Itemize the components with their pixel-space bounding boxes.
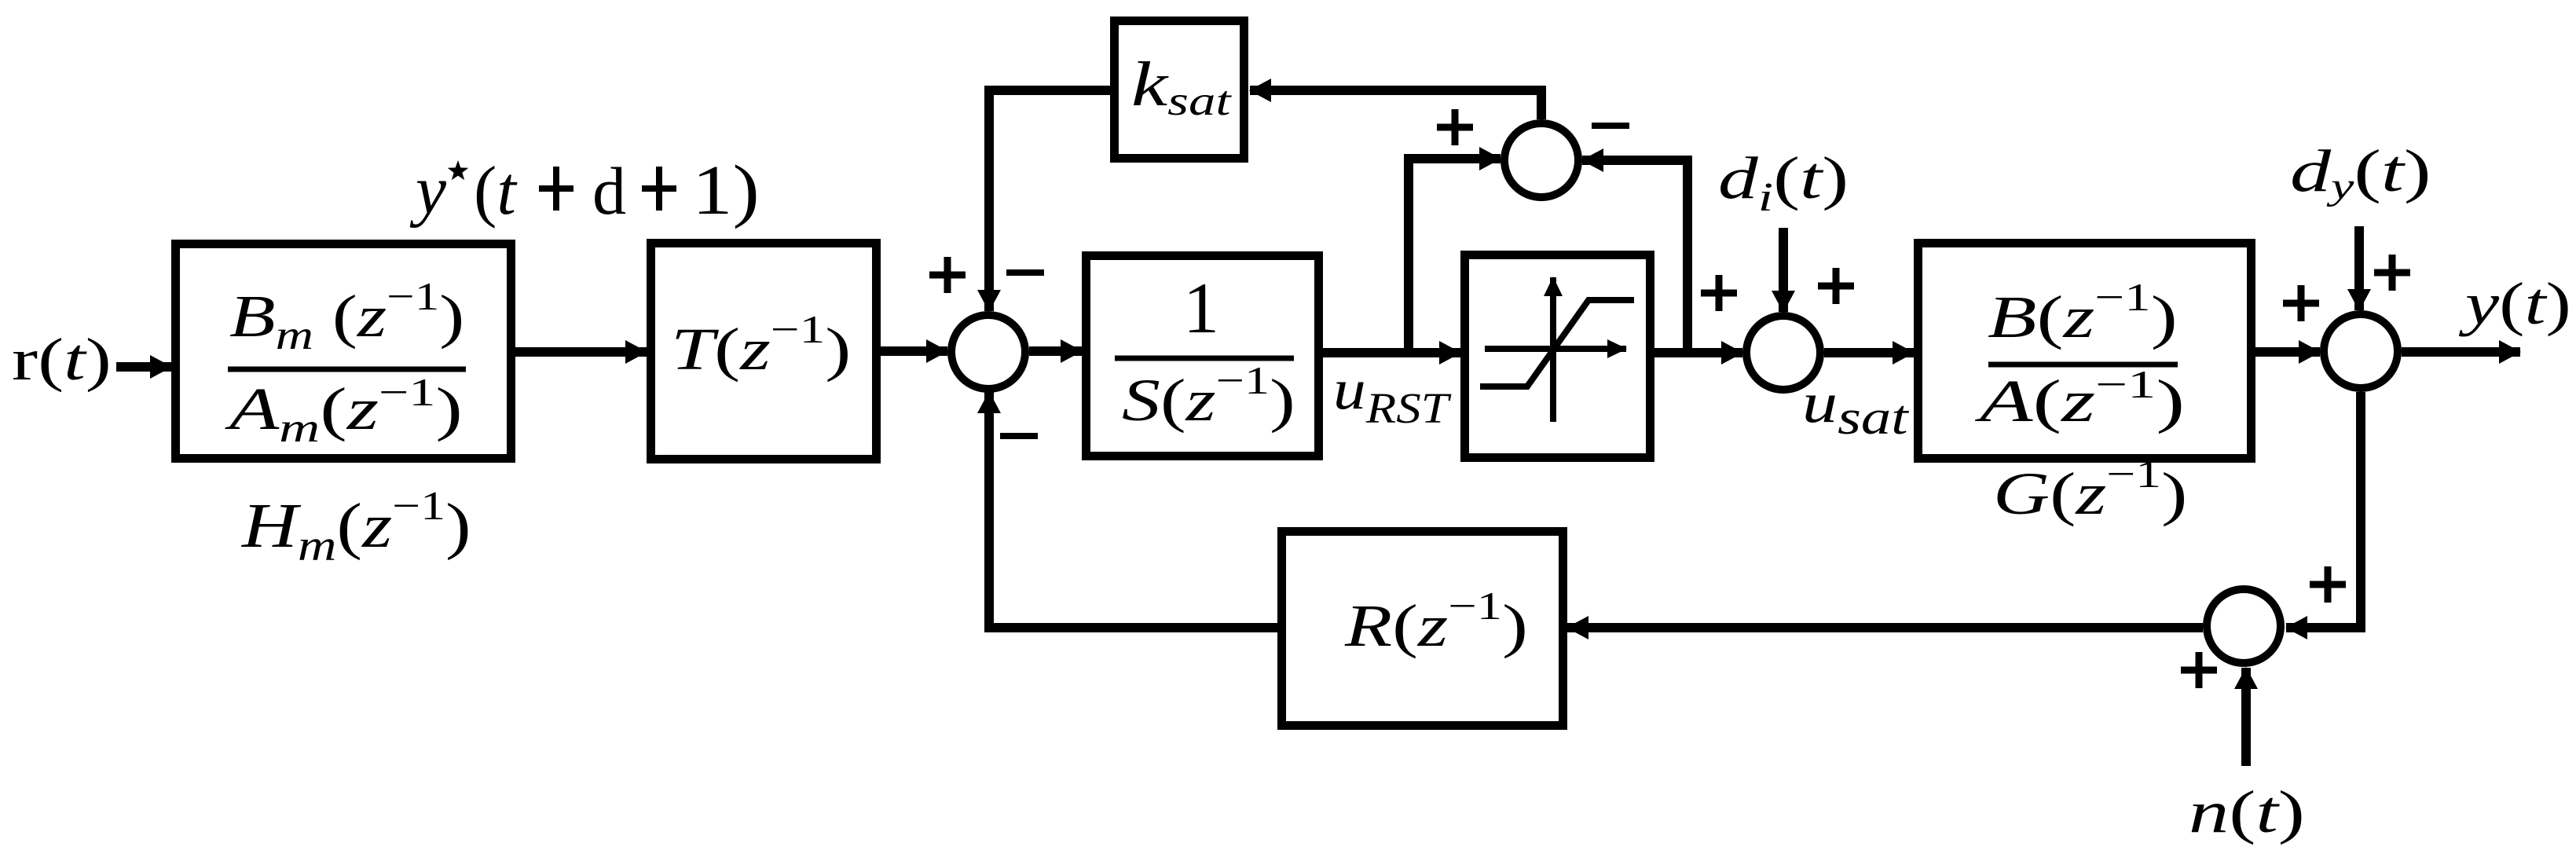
- svg-text:(t: (t: [474, 153, 518, 229]
- value B(z^-1) numerator: [1988, 275, 2178, 350]
- minus sign S1 bottom input: [1000, 433, 1038, 439]
- plus sign S1 left input: [929, 257, 966, 293]
- summer S4 output: [2324, 314, 2398, 388]
- fraction bar Hm: [228, 367, 466, 372]
- saturation icon vertical axis: [1550, 277, 1556, 422]
- wire Hm to T: [515, 347, 647, 357]
- svg-text:n(t): n(t): [2189, 779, 2305, 845]
- wire S5 to R block: [1567, 623, 2203, 632]
- summer S1: [951, 315, 1025, 389]
- plus sign S3 left input: [1701, 275, 1737, 311]
- wire branch u_RST up to summer S2: [1409, 159, 1501, 353]
- svg-text:d: d: [592, 153, 626, 229]
- block Hm reference model: [176, 244, 511, 459]
- node y*(t+d+1) label: [409, 151, 760, 229]
- node u_RST label: [1333, 357, 1452, 432]
- wire G to summer S4: [2255, 347, 2320, 357]
- wire branch u_sat up to summer S2: [1582, 160, 1687, 353]
- value Bm(z^-1) numerator: [229, 275, 464, 358]
- block ksat gain: [1115, 21, 1244, 159]
- node u_sat label: [1802, 371, 1909, 445]
- wire ksat to S1 top: [989, 90, 1110, 311]
- wire S3 to G block: [1824, 348, 1914, 357]
- plus sign S4 top input: [2374, 255, 2410, 291]
- svg-text:S(z−1): S(z−1): [1122, 360, 1295, 434]
- svg-text:di(t): di(t): [1718, 145, 1849, 220]
- node y(t) label: [2458, 270, 2571, 337]
- block R(z^-1) feedback: [1282, 532, 1563, 726]
- saturation icon horizontal axis: [1485, 346, 1626, 352]
- summer S5 noise: [2207, 589, 2281, 663]
- node G(z^-1) label: [1993, 452, 2187, 527]
- value T(z^-1): [671, 307, 851, 383]
- summer S3 input disturbance: [1746, 316, 1820, 390]
- node r(t) label: [12, 327, 112, 393]
- svg-text:y: y: [409, 152, 447, 229]
- svg-text:y(t): y(t): [2458, 270, 2571, 337]
- wire T to summer S1: [881, 346, 947, 356]
- svg-text:1: 1: [1183, 268, 1219, 348]
- block G plant: [1918, 244, 2252, 459]
- wire S1 to 1/S block: [1029, 346, 1082, 356]
- wire S2 to ksat: [1250, 90, 1541, 119]
- plus sign S2 left input: [1437, 109, 1473, 145]
- node n(t) label: [2189, 779, 2305, 845]
- value R(z^-1): [1344, 584, 1528, 659]
- wire r(t) input arrow: [116, 362, 171, 372]
- svg-text:r(t): r(t): [12, 327, 112, 393]
- value 1 numerator: [1183, 268, 1219, 348]
- plus sign S5 bottom input: [2181, 652, 2217, 688]
- value A(z^-1) denominator: [1974, 363, 2185, 434]
- wire saturation to summer S3: [1654, 348, 1742, 357]
- value S(z^-1) denominator: [1122, 360, 1295, 434]
- minus sign S1 top input: [1006, 269, 1044, 276]
- svg-text:1): 1): [692, 151, 760, 229]
- wire n(t) arrow into S5: [2241, 668, 2251, 766]
- value Am(z^-1) denominator: [225, 371, 463, 451]
- fraction bar 1/S: [1115, 356, 1294, 361]
- node Hm(z^-1) label: [241, 483, 471, 570]
- node d_y(t) label: [2290, 137, 2431, 207]
- plus sign S4 left input: [2283, 285, 2319, 321]
- plus sign S5 right input: [2310, 566, 2346, 603]
- wire S4 down to summer S5: [2286, 392, 2361, 628]
- block T(z^-1) controller: [651, 244, 877, 460]
- summer S2 anti-windup: [1504, 123, 1578, 197]
- wire d_y(t) arrow into S4: [2354, 226, 2364, 310]
- saturation icon limiter curve: [1480, 300, 1634, 387]
- wire 1/S to saturation: [1323, 348, 1460, 357]
- wire R to S1 bottom: [989, 392, 1277, 628]
- block 1/S(z^-1): [1086, 256, 1319, 456]
- value ksat: [1131, 49, 1233, 124]
- wire d_i(t) arrow into S3: [1779, 228, 1788, 312]
- svg-text:dy(t): dy(t): [2290, 137, 2431, 207]
- wire S4 to y(t) output: [2402, 347, 2520, 357]
- node d_i(t) label: [1718, 145, 1849, 220]
- minus sign S2 right input: [1592, 123, 1629, 129]
- plus sign S3 top input: [1818, 268, 1854, 304]
- fraction bar G: [1988, 362, 2178, 368]
- block saturation nonlinearity: [1465, 255, 1651, 458]
